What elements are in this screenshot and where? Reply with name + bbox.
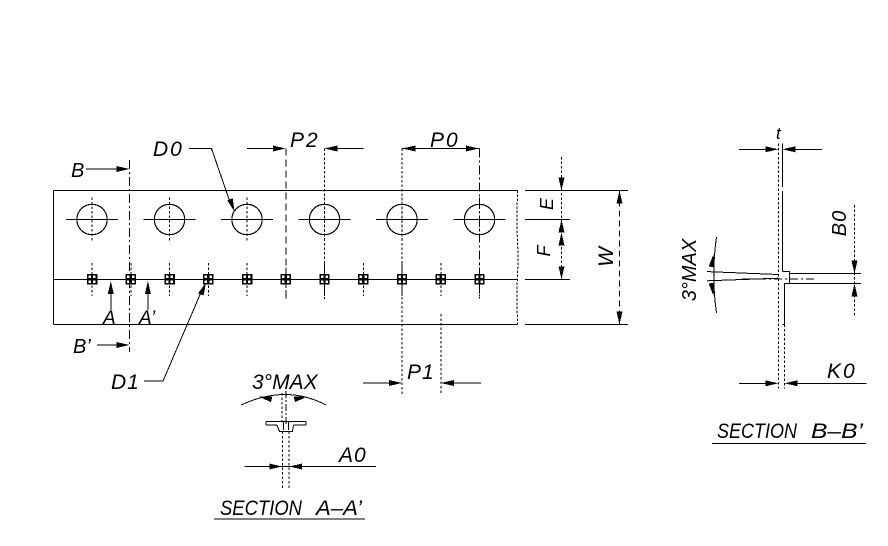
section A-A pocket hidden stem right bbox=[288, 431, 290, 490]
extension line tape top edge bbox=[525, 190, 628, 192]
sprocket hole 4 bbox=[309, 204, 339, 234]
dimension A0 line bbox=[245, 466, 377, 468]
tape outline left edge bbox=[53, 191, 55, 325]
section A-A pocket inner walls bbox=[283, 422, 285, 431]
tape outline top edge bbox=[54, 190, 518, 192]
section B-B 3 degree reference line lower bbox=[707, 278, 778, 281]
component pocket 8 bbox=[359, 275, 368, 284]
svg-text:K0: K0 bbox=[827, 360, 857, 383]
dimension t line right bbox=[795, 148, 822, 150]
sprocket hole 3 bbox=[232, 204, 262, 234]
extension line tape bottom edge bbox=[525, 324, 628, 326]
sprocket hole 4 centerline horizontal bbox=[299, 219, 351, 221]
svg-text:B0: B0 bbox=[829, 210, 851, 236]
sprocket hole 1 centerline vertical bbox=[91, 198, 93, 242]
pocket 9 centerline vertical bbox=[401, 263, 403, 296]
section line B-B (dash-dot) bbox=[129, 160, 131, 352]
svg-text:3°MAX: 3°MAX bbox=[252, 371, 319, 394]
component pocket 10 bbox=[436, 275, 445, 284]
sprocket hole 5 centerline horizontal bbox=[376, 219, 428, 221]
svg-text:P0: P0 bbox=[430, 129, 460, 152]
B section arrow bbox=[86, 168, 117, 170]
dimension W line (dashed) bbox=[619, 191, 621, 325]
P2 left extension line (dashed) bbox=[285, 149, 287, 300]
dimension P1 line right segment bbox=[453, 382, 481, 384]
pocket 11 centerline vertical bbox=[479, 263, 481, 296]
section B-B pocket hidden stem (dotted) bbox=[783, 325, 785, 389]
svg-text:W: W bbox=[595, 245, 618, 267]
section B-B 3 degree reference line upper bbox=[707, 272, 778, 275]
pocket 3 centerline vertical bbox=[169, 263, 171, 296]
component pocket 5 bbox=[243, 275, 252, 284]
P1 right extension line bbox=[440, 314, 442, 394]
sprocket hole 3 centerline horizontal bbox=[221, 219, 273, 221]
svg-text:A0: A0 bbox=[337, 444, 367, 467]
dimension K0 line left bbox=[739, 382, 766, 384]
component pocket 3 bbox=[165, 275, 174, 284]
sprocket hole 6 centerline vertical bbox=[479, 198, 481, 242]
A section arrow bbox=[110, 292, 112, 310]
section A-A pocket hidden stem left bbox=[282, 431, 284, 490]
dimension P2 line right segment bbox=[337, 148, 364, 150]
P0 right extension line (dash-dot) bbox=[479, 149, 481, 300]
sprocket hole 5 centerline vertical bbox=[401, 198, 403, 242]
section A-A' title underline bbox=[214, 518, 365, 520]
section A-A centerline (dash-dot) bbox=[285, 391, 287, 426]
section A-A tape bar bottom left bbox=[266, 424, 277, 426]
svg-text:E: E bbox=[537, 197, 557, 210]
svg-text:D0: D0 bbox=[153, 138, 184, 161]
section A-A bar left end bbox=[265, 422, 267, 426]
P2 right extension line bbox=[324, 149, 326, 300]
tape break line right edge bbox=[517, 191, 518, 325]
pocket 4 centerline vertical bbox=[207, 263, 209, 296]
extension line pocket centerline bbox=[525, 278, 570, 280]
svg-text:SECTIONB–B’: SECTIONB–B’ bbox=[717, 420, 863, 443]
section B-B tape strip right edge lower bbox=[781, 191, 783, 271]
component pocket 9 bbox=[398, 275, 407, 284]
component pocket 6 bbox=[281, 275, 290, 284]
dimension t line left bbox=[739, 148, 766, 150]
dimension K0 line right bbox=[798, 382, 867, 384]
component pocket 11 bbox=[475, 275, 484, 284]
component pocket 1 bbox=[88, 275, 97, 284]
sprocket hole 1 bbox=[77, 204, 107, 234]
section B-B centerline horizontal (dash-dot) bbox=[742, 278, 814, 280]
sprocket hole 4 centerline vertical bbox=[324, 198, 326, 242]
section A-A tape bar bottom right bbox=[294, 424, 307, 426]
svg-text:A’: A’ bbox=[138, 308, 156, 329]
svg-text:F: F bbox=[534, 245, 554, 257]
sprocket hole 2 centerline horizontal bbox=[144, 219, 196, 221]
P0 left / P1 left extension line bbox=[401, 149, 403, 395]
dimension P1 line left segment bbox=[363, 382, 390, 384]
section B-B tape strip left edge (dotted) bbox=[777, 144, 779, 389]
svg-text:B: B bbox=[71, 160, 84, 182]
component pocket 2 bbox=[126, 275, 135, 284]
dimension P0 line bbox=[402, 148, 480, 150]
pocket row centerline bbox=[54, 278, 518, 280]
extension line sprocket centerline bbox=[525, 219, 570, 221]
pocket 7 centerline vertical bbox=[324, 263, 326, 296]
section A-A pocket profile bbox=[277, 425, 294, 431]
sprocket hole 6 centerline horizontal bbox=[454, 219, 506, 221]
section B-B pocket top extension line bbox=[790, 273, 862, 275]
pocket 6 centerline vertical bbox=[285, 263, 287, 296]
svg-text:B’: B’ bbox=[73, 336, 91, 358]
sprocket hole 5 bbox=[387, 204, 417, 234]
sprocket hole 3 centerline vertical bbox=[246, 198, 248, 242]
section A-A bar right end bbox=[305, 422, 307, 426]
B' section arrow bbox=[97, 344, 117, 346]
D0 leader line bbox=[189, 149, 231, 206]
sprocket hole 2 bbox=[154, 204, 184, 234]
svg-text:P1: P1 bbox=[407, 361, 435, 384]
sprocket hole 6 bbox=[464, 204, 494, 234]
pocket 2 centerline vertical bbox=[130, 263, 132, 296]
component pocket 7 bbox=[320, 275, 329, 284]
sprocket hole 1 centerline horizontal bbox=[66, 219, 118, 221]
section B-B tape strip right edge upper bbox=[781, 144, 783, 187]
section A-A angle arc bbox=[241, 395, 326, 406]
tape outline bottom edge bbox=[54, 324, 518, 326]
D1 leader line bbox=[144, 290, 202, 381]
section A-A tape bar top bbox=[266, 421, 306, 423]
pocket 10 centerline vertical bbox=[440, 263, 442, 296]
svg-text:SECTIONA–A’: SECTIONA–A’ bbox=[220, 497, 362, 520]
svg-text:3°MAX: 3°MAX bbox=[679, 238, 701, 301]
section B-B pocket bottom extension line bbox=[790, 283, 862, 285]
sprocket hole 2 centerline vertical bbox=[169, 198, 171, 242]
svg-text:A: A bbox=[102, 308, 116, 329]
dimension B0 line (dotted) bbox=[854, 205, 856, 316]
A' section arrow bbox=[147, 292, 149, 310]
component pocket 4 bbox=[204, 275, 213, 284]
section B-B' title underline bbox=[712, 443, 866, 445]
pocket 5 centerline vertical bbox=[246, 263, 248, 296]
dimension E/F line bbox=[561, 157, 563, 279]
section B-B pocket bulge profile bbox=[782, 271, 789, 324]
section A-A hidden line above bar bbox=[281, 393, 283, 421]
section B-B angle arc bbox=[714, 237, 717, 313]
svg-text:D1: D1 bbox=[111, 371, 140, 394]
svg-text:P2: P2 bbox=[290, 129, 320, 152]
pocket 8 centerline vertical bbox=[362, 263, 364, 296]
pocket 1 centerline vertical bbox=[91, 263, 93, 296]
dimension P2 line left segment bbox=[247, 148, 273, 150]
